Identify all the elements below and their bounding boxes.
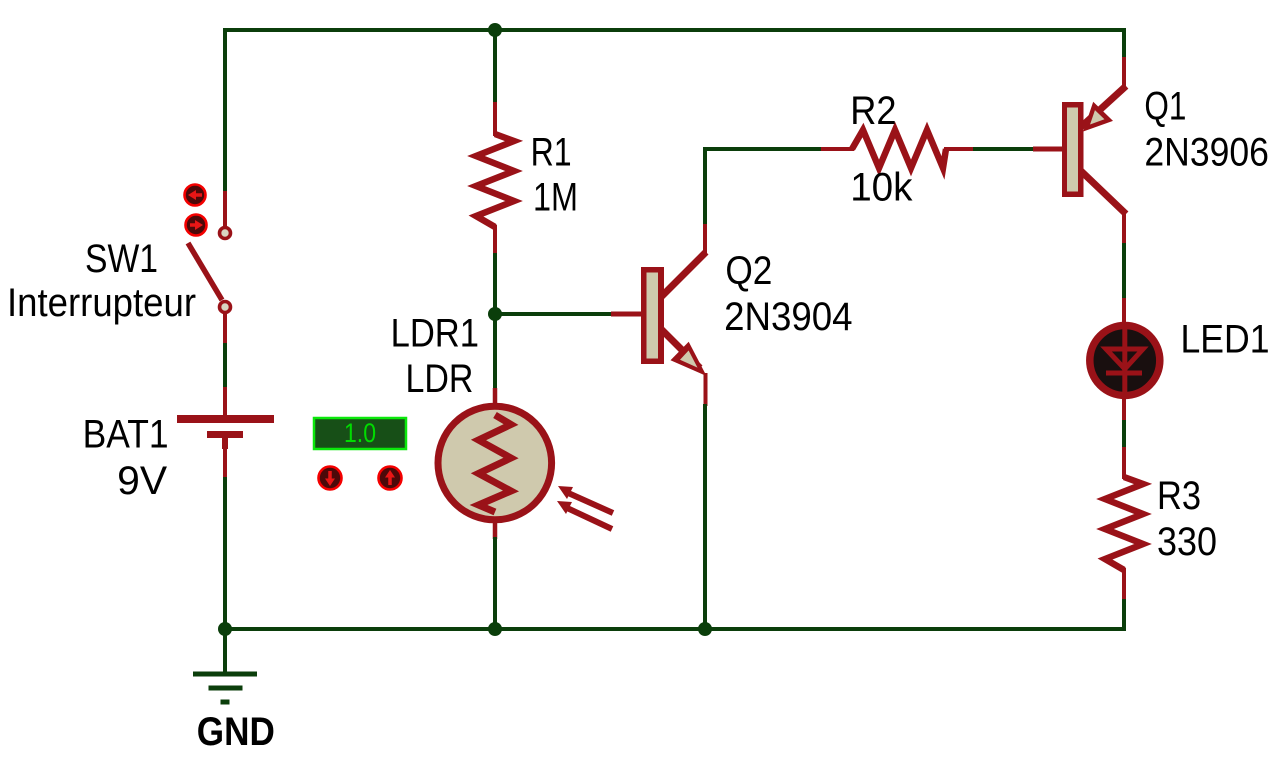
svg-text:LDR1: LDR1 <box>391 312 479 356</box>
wire Q2 emitter to bottom rail <box>703 404 707 631</box>
svg-text:330: 330 <box>1157 520 1217 564</box>
svg-text:R1: R1 <box>531 131 572 175</box>
node Q2 emitter junction <box>698 622 712 636</box>
transistor Q2 <box>641 252 707 376</box>
resistor R2 <box>852 130 946 168</box>
wire Q2 collector vertical <box>703 222 707 254</box>
wire R1 top <box>493 28 497 104</box>
wire ground stub <box>223 629 227 674</box>
wire R1 bottom lead <box>493 225 497 255</box>
wire battery bottom lead <box>223 447 227 479</box>
svg-text:1M: 1M <box>533 175 578 219</box>
switch SW1 toggle button up <box>185 185 206 206</box>
wire left rail upper <box>223 28 227 193</box>
wire left rail mid <box>223 343 227 389</box>
wire node A to LDR <box>493 313 497 390</box>
wire left rail lower <box>223 477 227 631</box>
wire base Q2 <box>493 312 613 316</box>
node A R1-LDR-base junction <box>488 307 502 321</box>
svg-text:BAT1: BAT1 <box>83 413 169 457</box>
wire Q2 collector to R2 <box>705 149 823 224</box>
LDR light arrow lower <box>557 501 612 529</box>
wire R1 top lead <box>493 102 497 136</box>
wire R3 bottom lead <box>1122 568 1126 601</box>
LDR button down <box>319 467 342 490</box>
wire LDR to bottom rail <box>493 537 497 631</box>
node LDR bottom junction <box>488 622 502 636</box>
svg-text:Interrupteur: Interrupteur <box>7 281 196 325</box>
wire Q1 collector to LED <box>1122 243 1126 300</box>
node top rail junction <box>488 23 502 37</box>
svg-text:SW1: SW1 <box>85 237 158 281</box>
svg-text:2N3904: 2N3904 <box>724 295 852 339</box>
wire switch bottom lead <box>223 313 227 345</box>
wire R3 top lead <box>1122 447 1126 479</box>
wire battery top lead <box>223 387 227 416</box>
battery BAT1 <box>177 415 274 449</box>
resistor R3 <box>1105 477 1143 570</box>
transistor Q1 <box>1062 86 1126 214</box>
svg-text:LED1: LED1 <box>1181 318 1270 362</box>
wire R1 to node A <box>493 253 497 316</box>
wire Q2 base lead <box>611 312 643 317</box>
switch SW1 toggle button down <box>186 215 207 236</box>
ground <box>193 674 257 702</box>
wire switch top lead <box>223 191 227 227</box>
resistor R1 <box>476 134 514 227</box>
photoresistor LDR1 <box>438 406 552 520</box>
svg-text:LDR: LDR <box>406 357 474 401</box>
wire LDR top lead <box>493 388 498 417</box>
LDR display readout 1.0 <box>314 418 406 449</box>
svg-text:9V: 9V <box>117 459 167 503</box>
wire LED bottom lead <box>1122 395 1126 422</box>
svg-text:1.0: 1.0 <box>344 418 376 448</box>
wire R2 to Q1 <box>973 147 1035 151</box>
svg-text:R3: R3 <box>1157 474 1201 518</box>
wire Q1 collector lead <box>1122 211 1126 245</box>
wire LDR bottom lead <box>493 509 498 539</box>
wire R2 right lead <box>944 147 975 151</box>
switch SW1 <box>188 228 231 313</box>
LDR light arrow upper <box>558 486 613 513</box>
svg-text:10k: 10k <box>850 166 913 210</box>
wire R3 to bottom rail <box>1122 599 1126 631</box>
svg-text:Q1: Q1 <box>1144 85 1186 129</box>
svg-text:GND: GND <box>197 710 275 754</box>
svg-text:2N3906: 2N3906 <box>1144 131 1269 175</box>
wire R2 left lead <box>821 147 854 151</box>
wire top rail <box>223 28 1126 32</box>
node ground junction <box>218 622 232 636</box>
LDR button up <box>379 467 402 490</box>
wire bottom rail <box>225 627 1126 631</box>
wire LED top lead <box>1122 298 1126 326</box>
svg-text:R2: R2 <box>850 89 896 133</box>
wire Q1 base lead <box>1033 147 1064 152</box>
svg-text:Q2: Q2 <box>725 249 772 293</box>
wire Q2 emitter lead <box>704 373 708 406</box>
LED LED1 <box>1090 325 1160 396</box>
wire Q1 emitter lead <box>1122 57 1126 89</box>
wire LED to R3 <box>1122 420 1126 449</box>
wire Q1 emitter top <box>1122 28 1126 59</box>
